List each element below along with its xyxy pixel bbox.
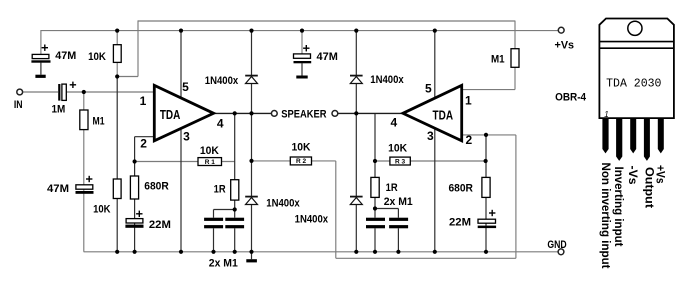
svg-text:680R: 680R [144, 180, 169, 192]
svg-text:+Vs: +Vs [555, 40, 575, 52]
svg-text:GND: GND [547, 239, 566, 251]
svg-text:1M: 1M [52, 104, 66, 116]
svg-text:TDA 2030: TDA 2030 [606, 78, 661, 91]
svg-text:OBR-4: OBR-4 [555, 92, 587, 104]
svg-text:1N400x: 1N400x [205, 75, 239, 87]
svg-text:22M: 22M [449, 217, 471, 229]
svg-text:47M: 47M [47, 183, 69, 195]
svg-text:1N400x: 1N400x [295, 213, 329, 225]
svg-text:3: 3 [183, 130, 190, 144]
svg-text:1: 1 [604, 110, 608, 119]
svg-text:10K: 10K [292, 141, 311, 153]
svg-text:SPEAKER: SPEAKER [281, 108, 326, 120]
svg-text:R 2: R 2 [296, 158, 307, 165]
svg-text:R 1: R 1 [205, 159, 216, 166]
svg-text:1R: 1R [214, 184, 226, 196]
svg-text:5: 5 [182, 80, 189, 94]
svg-text:1R: 1R [386, 182, 398, 194]
svg-text:4: 4 [217, 116, 224, 130]
svg-text:1: 1 [465, 93, 472, 107]
svg-text:Output: Output [643, 167, 657, 208]
svg-text:Inverting input: Inverting input [612, 167, 626, 247]
svg-text:47M: 47M [55, 50, 76, 62]
svg-text:-Vs: -Vs [626, 166, 640, 185]
svg-text:4: 4 [391, 116, 398, 130]
svg-text:47M: 47M [317, 51, 338, 63]
svg-text:2x M1: 2x M1 [209, 257, 238, 269]
svg-text:2: 2 [140, 137, 147, 151]
svg-text:TDA: TDA [160, 108, 181, 122]
svg-text:10K: 10K [388, 143, 407, 155]
svg-text:Non inverting input: Non inverting input [599, 163, 613, 269]
svg-text:1N400x: 1N400x [370, 74, 404, 86]
svg-text:10K: 10K [88, 51, 106, 63]
svg-text:M1: M1 [93, 116, 105, 128]
svg-text:10K: 10K [200, 145, 219, 157]
svg-text:R 3: R 3 [395, 158, 406, 165]
svg-text:680R: 680R [448, 182, 473, 194]
svg-text:2x M1: 2x M1 [384, 196, 413, 208]
svg-text:3: 3 [427, 129, 434, 143]
svg-text:22M: 22M [149, 219, 171, 231]
svg-text:1: 1 [140, 94, 147, 108]
svg-text:10K: 10K [93, 203, 110, 215]
svg-text:TDA: TDA [433, 108, 454, 122]
svg-text:M1: M1 [491, 54, 505, 66]
svg-text:IN: IN [14, 99, 23, 111]
svg-text:5: 5 [425, 82, 432, 96]
svg-text:1N400x: 1N400x [266, 197, 300, 209]
svg-text:2: 2 [466, 133, 473, 147]
